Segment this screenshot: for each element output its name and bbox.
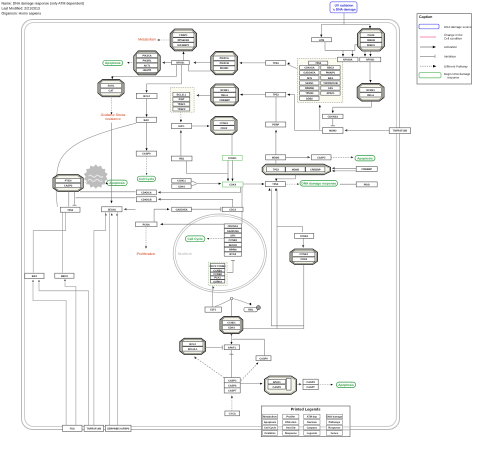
- svg-text:RRM2B: RRM2B: [305, 87, 314, 90]
- wire BAX to bottom b2: [39, 283, 89, 425]
- svg-text:RB1: RB1: [179, 158, 185, 161]
- wire MDM2 to TP53 riser: [295, 95, 323, 131]
- gene box nucleus SESN1: [224, 243, 241, 247]
- DNA damage source box: [330, 2, 357, 13]
- arrow group into TP53 upper: [287, 62, 290, 65]
- gene box E2F1 nucleus: [205, 307, 221, 312]
- svg-text:SESN1: SESN1: [229, 244, 238, 247]
- svg-text:PIK3R1: PIK3R1: [143, 59, 152, 62]
- svg-text:TP53: TP53: [273, 94, 280, 97]
- wire stack dotted to Cell Cycle: [208, 238, 224, 240]
- label Metabolism: [138, 37, 156, 41]
- caption different swatch: [420, 65, 436, 68]
- arrow complex D into group 2: [196, 94, 199, 96]
- gene box bottom TNFRSF: [84, 425, 104, 431]
- wire circle to RB1P box: [233, 299, 250, 305]
- complex E SOD: [98, 80, 124, 97]
- arrow into BCL2 family box: [146, 90, 148, 93]
- complex A mTOR: [170, 29, 196, 51]
- svg-text:PLK1: PLK1: [214, 277, 221, 280]
- svg-text:APAF1: APAF1: [228, 346, 237, 349]
- wire PTEN to blob: [83, 182, 86, 184]
- arrow into TP53 right: [287, 94, 290, 96]
- svg-text:CYCS: CYCS: [229, 412, 236, 415]
- gene box NFKBIA: [337, 57, 358, 62]
- gene box target SESN1: [300, 81, 319, 85]
- svg-text:DDB2: DDB2: [306, 97, 313, 100]
- svg-text:response: response: [447, 76, 460, 80]
- svg-text:CASP9: CASP9: [273, 386, 282, 389]
- svg-text:E2F1: E2F1: [210, 309, 217, 312]
- arrow E2F into group3: [212, 286, 215, 289]
- wire complex H to green T: [231, 135, 233, 156]
- svg-text:GADD45A: GADD45A: [303, 72, 315, 75]
- svg-text:CCNB1: CCNB1: [213, 269, 222, 272]
- svg-text:Activation: Activation: [444, 45, 457, 49]
- svg-text:CASP9: CASP9: [259, 357, 268, 360]
- gene box target TNFRSF10B: [321, 81, 340, 85]
- wire CCNE to complex J: [302, 238, 304, 246]
- arrow into RB1P box: [249, 303, 252, 306]
- svg-text:Cell Cycle: Cell Cycle: [187, 237, 202, 241]
- arrow into Proliferation: [145, 246, 147, 248]
- wire box Y to E2F: [180, 131, 182, 156]
- gene box MDM2-p53 BX: [266, 155, 286, 160]
- group box p53 targets: [297, 59, 342, 103]
- wire MDM2 branch up to target group: [319, 107, 321, 131]
- svg-text:PIK3CA: PIK3CA: [220, 57, 229, 60]
- svg-text:Genes: Genes: [331, 432, 339, 435]
- svg-text:FAS: FAS: [328, 87, 333, 90]
- wire complex C to NFKB small: [195, 62, 211, 64]
- svg-text:ATM dep: ATM dep: [307, 416, 318, 419]
- arrow into complex H left: [207, 125, 210, 127]
- arrow dotted to Apoptosis right: [351, 156, 353, 158]
- gene box nucleus CDKN1A: [224, 224, 241, 228]
- wire E2F to complex H: [192, 125, 209, 127]
- wire box to ellipse b: [333, 170, 356, 172]
- gene box target RRM2B: [300, 86, 319, 90]
- wire NFKB small to complex B: [163, 62, 171, 64]
- gene box bottom IGFBP3: [105, 425, 131, 431]
- svg-text:Apoptosis: Apoptosis: [338, 383, 354, 387]
- wire green S down to stack: [241, 187, 243, 224]
- svg-text:CDKN1A: CDKN1A: [141, 192, 152, 195]
- arrow membrane into MDM2: [345, 129, 348, 131]
- svg-text:SFN: SFN: [230, 234, 235, 237]
- cell membrane outer: [22, 20, 400, 430]
- svg-text:BTG2: BTG2: [229, 253, 236, 256]
- svg-text:Prolifer: Prolifer: [286, 416, 295, 419]
- svg-text:CCNB2: CCNB2: [213, 273, 222, 276]
- svg-text:Cell Cycle: Cell Cycle: [139, 177, 154, 181]
- gene box BAX: [136, 117, 156, 122]
- svg-text:Cell condition: Cell condition: [444, 37, 462, 41]
- svg-text:TRAF1: TRAF1: [177, 103, 186, 106]
- wire box Y elbow to risers: [187, 161, 228, 174]
- svg-text:Cell Cycle: Cell Cycle: [264, 427, 277, 430]
- svg-text:↘ DNA damage: ↘ DNA damage: [332, 7, 356, 11]
- svg-text:TNFRSF10B: TNFRSF10B: [393, 130, 408, 133]
- gene box cyc CCNB2: [210, 272, 225, 276]
- wire riser a to TP53BP: [271, 189, 304, 326]
- complex M apoptosome: [264, 376, 296, 394]
- svg-text:NFKB1: NFKB1: [220, 89, 229, 92]
- svg-text:SESN1: SESN1: [305, 82, 314, 85]
- wire UV to junction: [343, 13, 345, 25]
- svg-text:NFKB1: NFKB1: [366, 59, 375, 62]
- gene box group header TP53: [309, 61, 328, 65]
- svg-text:Caption: Caption: [419, 15, 432, 19]
- gene box target BAX: [321, 76, 340, 80]
- wire ellipse to PERP: [275, 130, 277, 163]
- gene box bottom FAS: [63, 425, 83, 431]
- svg-text:CDKN1B: CDKN1B: [141, 198, 152, 201]
- svg-text:RPRM: RPRM: [229, 249, 236, 252]
- svg-text:CDC2: CDC2: [229, 208, 236, 211]
- svg-text:FAS: FAS: [70, 427, 75, 430]
- wire ATM elbow to complex F: [325, 42, 358, 51]
- arrow T into S a: [227, 179, 229, 182]
- wire CASP dotted to Apoptosis: [318, 384, 331, 386]
- arrow complex I down a: [231, 334, 233, 336]
- svg-text:BBC3: BBC3: [61, 275, 68, 278]
- svg-text:IKBKB: IKBKB: [367, 39, 375, 42]
- svg-text:CASP3: CASP3: [228, 379, 237, 382]
- arrow into NFKB1 a: [364, 54, 366, 57]
- gene box target CDKN1A: [300, 66, 319, 70]
- arrow into complex F top: [369, 26, 371, 29]
- wire PTEN right to CDKN1A left: [80, 191, 136, 193]
- gene box CDK R2: [222, 207, 243, 211]
- svg-text:Different Pathway: Different Pathway: [444, 64, 468, 68]
- wire CDKN2A inhibits MDM2: [332, 119, 334, 126]
- svg-text:Proliferation: Proliferation: [137, 252, 156, 256]
- svg-text:DNA dam: DNA dam: [285, 421, 297, 424]
- wire target group to TP53 upper: [288, 65, 297, 69]
- gene box NFKB target TRAF2: [173, 107, 190, 111]
- wire stack left to PCNA box: [162, 223, 225, 225]
- arrow bracket into green S: [219, 183, 222, 185]
- gene box target FAS: [321, 86, 340, 90]
- oval Apoptosis right: [355, 156, 375, 161]
- svg-text:Apoptosis: Apoptosis: [357, 156, 373, 160]
- gene box cyc CDC2 CCNB1: [210, 263, 227, 268]
- gene box NFKBIB: [360, 57, 381, 62]
- svg-text:GADD45A: GADD45A: [176, 208, 188, 211]
- arrow into oxidative label: [111, 112, 113, 114]
- gene box CDKN1A: [136, 190, 156, 195]
- wire PTEN down inhibition b: [74, 192, 76, 205]
- complex C PI3K: [211, 52, 238, 75]
- svg-text:Metabolism: Metabolism: [263, 416, 278, 419]
- svg-text:CDKN1A: CDKN1A: [228, 225, 239, 228]
- arrow below BAX a: [32, 281, 34, 283]
- wire TP53BP dotted to DDR oval: [286, 183, 298, 185]
- gene box ATM: [312, 38, 332, 42]
- gene box nucleus CCNB1: [224, 238, 241, 242]
- gene box TP53: [266, 92, 286, 97]
- svg-text:MDM2: MDM2: [272, 156, 280, 159]
- svg-text:MDM2: MDM2: [329, 130, 337, 133]
- wire junction to ATM: [320, 25, 322, 37]
- gene box E2F box X: [171, 124, 191, 129]
- wire NFKB small side to complex C left: [189, 65, 211, 71]
- svg-text:TNFRSF10B: TNFRSF10B: [87, 427, 102, 430]
- svg-text:CDK4: CDK4: [229, 184, 236, 187]
- arrow up into SESN b: [111, 213, 113, 215]
- svg-text:RELA: RELA: [221, 94, 228, 97]
- arrow up into TP53BP b: [275, 188, 277, 191]
- wire big curve BAX to p53 box: [56, 123, 136, 207]
- wire TP53 upper to complex C: [241, 62, 266, 64]
- gene box CASP BY: [311, 155, 331, 160]
- wire bracket Z2: [191, 184, 196, 186]
- gene box PCNA R3: [136, 222, 158, 227]
- svg-text:EIF4EBP1: EIF4EBP1: [177, 44, 189, 47]
- wire stack3 dashed to complex L: [195, 358, 226, 379]
- inhibition bar below stack column: [231, 259, 235, 261]
- oval Cell Cycle left: [137, 176, 155, 181]
- svg-text:Inhibition: Inhibition: [444, 55, 456, 59]
- wire group2 dotted to E2F: [180, 112, 182, 121]
- complex H CCNE CDK2: [211, 116, 237, 134]
- svg-text:Printed Legends: Printed Legends: [291, 408, 321, 412]
- wire from right into SESN: [125, 208, 136, 210]
- caption pink swatch: [420, 36, 436, 38]
- arrow complex M into CASP pair: [299, 383, 301, 385]
- gene box CDKN1B: [136, 197, 156, 202]
- arrow BX into CASP box BY: [308, 156, 311, 158]
- gene box membrane TNFRSF10B: [389, 128, 410, 134]
- svg-text:SFN: SFN: [307, 77, 312, 80]
- wire complex L inhibits APAF1: [206, 347, 222, 349]
- svg-text:BCL2L1: BCL2L1: [177, 93, 187, 96]
- gene box CASP7 pair: [303, 384, 318, 389]
- svg-text:CDK2: CDK2: [220, 127, 227, 130]
- wire T to S a: [227, 160, 229, 180]
- wire TP53 to complex D: [242, 94, 266, 96]
- wire BAX to bottom b1: [33, 283, 66, 425]
- caption inhibition swatch: [420, 55, 435, 58]
- svg-text:Apoptosis: Apoptosis: [105, 61, 121, 65]
- svg-text:CAT: CAT: [109, 90, 114, 93]
- svg-text:DNA damage source: DNA damage source: [444, 25, 472, 29]
- gene box RB1 box Y: [171, 156, 192, 161]
- gene box target APAF1: [321, 91, 340, 95]
- complex J CCNE CDK2: [290, 249, 318, 265]
- wire PIDD to DDR area: [340, 183, 356, 185]
- wire SOD to oxidative label: [111, 97, 113, 114]
- arrow ellipse into TP53BP: [275, 179, 277, 182]
- green box CCND1: [222, 155, 242, 160]
- wire complex D to group 2: [198, 94, 211, 96]
- svg-text:DNA damage: DNA damage: [327, 416, 343, 419]
- arrow dotted into E2F top: [180, 120, 182, 123]
- wire stack3 to complex M: [240, 383, 261, 385]
- gene box APAF1 K1: [224, 345, 239, 350]
- wire junction to complex F: [369, 25, 371, 28]
- gene box MDM2: [323, 128, 344, 134]
- arrow to Metabolism: [157, 39, 159, 41]
- svg-text:PCNA: PCNA: [143, 223, 150, 226]
- gene box CASP6 stack3: [224, 383, 240, 388]
- complex ellipse p53-MDM2: [262, 164, 330, 175]
- printed legends box: [261, 406, 350, 437]
- wire lower to CDKN1B left: [76, 197, 136, 199]
- inhibition bar above p53 box: [73, 204, 77, 206]
- svg-text:CASP7: CASP7: [306, 386, 315, 389]
- wire complex J down: [243, 265, 304, 329]
- svg-text:Response: Response: [328, 427, 341, 430]
- svg-text:BAX: BAX: [328, 77, 334, 80]
- svg-text:RB1: RB1: [248, 309, 254, 312]
- svg-text:AKT1: AKT1: [144, 64, 151, 67]
- wire CYCS dotted to stack3: [231, 396, 233, 410]
- svg-text:CDK4: CDK4: [178, 185, 185, 188]
- svg-text:RELA: RELA: [367, 94, 374, 97]
- gene box SESN right: [102, 207, 123, 212]
- svg-text:CASP9: CASP9: [142, 153, 151, 156]
- arrow TP53 chain into complex C: [239, 62, 242, 64]
- wire junction horizontal: [321, 24, 370, 26]
- complex I CCND CDK4: [220, 316, 243, 333]
- wire phospho circle to E2F1: [215, 300, 230, 307]
- label Proliferation: [137, 252, 156, 256]
- gene box target GADD45A: [300, 71, 319, 75]
- gene box CCNE input: [295, 233, 314, 238]
- svg-text:Metabolism: Metabolism: [138, 37, 156, 41]
- wire bracket to green S: [197, 183, 220, 185]
- gene box CASP7 stack3: [224, 388, 240, 393]
- gene box GADD45 R1: [172, 207, 192, 211]
- gene box target SFN: [300, 76, 319, 80]
- svg-text:CASP3: CASP3: [64, 184, 73, 187]
- cell membrane inner: [25, 23, 397, 427]
- arrow below PUMA: [64, 280, 66, 282]
- wire NFKB small to BCL2 box: [147, 65, 182, 90]
- gene box nucleus SFN: [224, 233, 241, 237]
- arrow NFKB into complex A bottom: [182, 51, 184, 54]
- svg-text:Name: DNA damage response (onl: Name: DNA damage response (only ATM depe…: [2, 1, 85, 5]
- arrow complex G into CDKN2A: [332, 111, 334, 114]
- wire APAF1 inhibition to stack3: [230, 350, 232, 378]
- svg-text:BCL2L1: BCL2L1: [188, 348, 198, 351]
- svg-text:FRAP1: FRAP1: [179, 34, 188, 37]
- wire SESN to bottom b2: [94, 212, 106, 425]
- group box cell cycle genes: [208, 262, 227, 285]
- svg-text:Caspase: Caspase: [307, 427, 318, 430]
- arrow stack3 into complex L: [194, 356, 197, 359]
- svg-text:CDKN1A: CDKN1A: [304, 67, 315, 70]
- complex U2 NFKB (NFKB1 RELA): [357, 84, 384, 102]
- inhibition bar before CDK R2: [220, 207, 222, 211]
- wire PUMA to bottom b1: [65, 282, 76, 425]
- svg-text:CDK4: CDK4: [228, 326, 235, 329]
- gene box CASP9: [136, 151, 156, 156]
- wire BAX to CASP box: [146, 122, 148, 149]
- gene box PUMA target O2: [55, 273, 74, 278]
- gene box CCNG Z2: [172, 184, 191, 189]
- gene box cyc CCNB1: [210, 269, 225, 273]
- gene box cyc PLK1: [210, 276, 225, 280]
- arrow into SOD complex top: [111, 77, 113, 80]
- gene box PERP: [266, 122, 286, 127]
- caption begin swatch: [419, 73, 441, 78]
- svg-text:AURKA: AURKA: [213, 280, 222, 283]
- caption DNA damage swatch: [419, 24, 439, 29]
- svg-text:CDK2: CDK2: [300, 258, 307, 261]
- complex D NFKB targets: [211, 84, 239, 106]
- wire PCNA dashed to Proliferation: [145, 227, 147, 248]
- svg-text:APAF1: APAF1: [273, 381, 282, 384]
- svg-text:PMAIP1: PMAIP1: [326, 72, 336, 75]
- wire complex I to circle: [231, 300, 233, 316]
- wire blob to Apoptosis: [105, 182, 107, 184]
- arrow into ellipse right a: [332, 167, 335, 169]
- svg-text:SERPINB5 IGFBP3: SERPINB5 IGFBP3: [107, 427, 130, 430]
- svg-text:CHUK: CHUK: [367, 34, 374, 37]
- svg-text:Nucleus: Nucleus: [178, 251, 192, 256]
- wire membrane box to MDM2: [345, 129, 389, 131]
- svg-text:Organism: Homo sapiens: Organism: Homo sapiens: [2, 12, 42, 16]
- arrow stack3 into CASP9 K2: [256, 362, 259, 365]
- wire NFKB small up to complex A: [183, 53, 185, 61]
- svg-text:BBC3: BBC3: [327, 67, 334, 70]
- svg-text:CCNG1: CCNG1: [177, 180, 186, 183]
- svg-text:TRAF2: TRAF2: [177, 108, 186, 111]
- complex B AKT path: [134, 51, 160, 75]
- wire TP53 left down a: [33, 212, 65, 272]
- wire complex F to NFKB1 a: [364, 51, 366, 55]
- wire bracket Z1: [191, 181, 196, 184]
- arrow below BAX b: [38, 281, 40, 283]
- svg-text:CASP3: CASP3: [306, 381, 315, 384]
- gene box nucleus BTG2: [224, 252, 241, 256]
- wire branch to NFKBIA a: [342, 50, 344, 55]
- wire ellipse down to TP53BP: [276, 175, 295, 180]
- wire group3 to stack: [227, 261, 233, 272]
- arrow ellipse complex into PERP: [275, 130, 277, 133]
- gene box nucleus RPRM: [224, 247, 241, 251]
- gene box PIDD right: [356, 182, 377, 187]
- oval Cell Cycle nucleus: [185, 236, 205, 242]
- svg-text:CREBBP: CREBBP: [219, 99, 230, 102]
- wire oxidative to GPX box: [111, 123, 113, 203]
- gene box NFKB small: [172, 61, 190, 65]
- wire cross to CDK2 input: [277, 227, 303, 233]
- gene box target DDB2: [300, 96, 319, 100]
- svg-text:CREBBP: CREBBP: [310, 169, 321, 172]
- wire NFKB small to SOD complex: [112, 65, 176, 78]
- svg-text:PIK3R1: PIK3R1: [220, 67, 229, 70]
- wire TP53 down to PERP: [275, 97, 277, 122]
- svg-text:CCNE1: CCNE1: [220, 122, 229, 125]
- oval DNA damage response: [300, 181, 338, 187]
- svg-text:NFKBIA: NFKBIA: [343, 59, 353, 62]
- wire BCL2 to BAX box: [146, 99, 148, 116]
- svg-text:Oxid Str: Oxid Str: [286, 427, 296, 430]
- wire branch to NFKBIA b: [352, 50, 354, 55]
- nucleus membrane inner: [175, 216, 264, 291]
- wire BX to BY: [286, 156, 309, 158]
- wire green S to CDKN1A: [159, 187, 240, 192]
- oval Apoptosis mid-left: [107, 180, 127, 185]
- gene box BAX target O: [25, 273, 44, 279]
- svg-text:DNA damage response: DNA damage response: [301, 182, 336, 186]
- arrow dotted into DDR oval: [297, 183, 299, 185]
- arrow into BAX box: [146, 114, 148, 117]
